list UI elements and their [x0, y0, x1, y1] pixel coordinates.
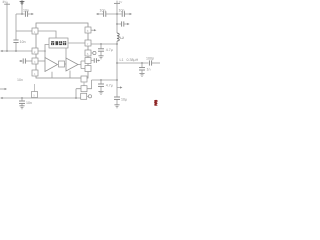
- pin box 5r (right): [85, 58, 91, 64]
- ground rail y98: [1, 97, 81, 99]
- arrow (y14 net right end): [130, 13, 132, 15]
- junction (7,51): [6, 50, 8, 52]
- svg-text:0.38μH: 0.38μH: [127, 58, 139, 62]
- wire B2 left to ground rail: [76, 89, 81, 98]
- stub wire y89 (left edge): [0, 88, 5, 90]
- junction (117,80): [116, 79, 118, 81]
- series capacitor C9 (x150): [149, 60, 151, 65]
- junction (16,51): [15, 50, 17, 52]
- wire y14 decoupling net: [97, 13, 103, 15]
- svg-text:10n: 10n: [23, 9, 29, 13]
- svg-text:3V: 3V: [2, 0, 7, 4]
- pin box 8 (right top): [85, 27, 91, 33]
- junction (22,14): [21, 13, 23, 15]
- capacitor C (series, x25-27): [25, 11, 27, 17]
- wire pin1 to block top: [38, 31, 56, 38]
- ground (C8): [98, 56, 103, 59]
- svg-text:10n: 10n: [26, 101, 32, 105]
- junction (22,98): [21, 97, 23, 99]
- red watermark logo: [154, 100, 158, 106]
- terminal circle (pin 6): [93, 51, 96, 54]
- output line y63: [117, 62, 148, 64]
- svg-text:10n: 10n: [100, 9, 106, 13]
- supply rail x117: [116, 3, 118, 33]
- wire block to pin 7: [68, 42, 85, 44]
- svg-text:3V: 3V: [119, 0, 123, 4]
- pin box B2: [81, 86, 87, 92]
- ground (C12): [114, 105, 119, 108]
- stub arrow (pin 8): [91, 29, 94, 31]
- terminal circle (B3): [88, 95, 91, 98]
- pin box 5 (left bottom): [34, 84, 36, 92]
- wire A2 bottom down: [69, 71, 71, 78]
- pin box 4r (right): [85, 66, 91, 72]
- wire bus y51: [1, 50, 32, 52]
- junction (117,44): [116, 43, 118, 45]
- arrow (y14 net left end): [96, 13, 98, 15]
- wire B2 right up: [87, 80, 92, 89]
- pin box 2 (left): [32, 48, 38, 54]
- capacitor C11 4.7u: [100, 80, 102, 84]
- junction (45,51): [44, 50, 46, 52]
- wire from V1 down to bus: [6, 4, 8, 51]
- arrow (y51 left end): [0, 50, 2, 52]
- svg-text:4.7μ: 4.7μ: [106, 84, 113, 88]
- ground (x22): [19, 106, 24, 109]
- capacitor C3 (series y61): [23, 58, 25, 63]
- capacitor C7: [122, 21, 124, 26]
- link B1-B2: [83, 82, 85, 86]
- svg-text:10n: 10n: [119, 9, 125, 13]
- junction (117,24): [116, 23, 118, 25]
- wire x16 vertical: [15, 14, 17, 40]
- ground (C11): [98, 91, 103, 94]
- wire pin2 to amp A1: [38, 51, 45, 58]
- svg-text:10μ: 10μ: [121, 98, 127, 102]
- svg-text:4.7μ: 4.7μ: [106, 48, 113, 52]
- capacitor C12 (rail bottom): [114, 97, 120, 99]
- inductor L2 (on rail): [117, 33, 119, 41]
- pin box 6 (right): [85, 50, 91, 56]
- wire Z1 to A2: [65, 63, 67, 65]
- wire A1 bottom down: [51, 72, 53, 78]
- wire pin3 to amp A1: [38, 60, 45, 62]
- svg-text:100p: 100p: [146, 57, 154, 61]
- junction (101,80): [100, 79, 102, 81]
- junction (142,63): [141, 62, 143, 64]
- ground (C10): [139, 73, 144, 76]
- arrow stub (rail y87.5): [117, 87, 120, 89]
- arrow terminal (y14 right end): [31, 13, 33, 15]
- capacitor C8 4.7u: [100, 44, 102, 48]
- arrow (y61 left end): [19, 60, 21, 62]
- capacitor C5: [104, 11, 106, 17]
- junction (117,14): [116, 13, 118, 15]
- svg-text:L1: L1: [120, 58, 124, 62]
- wire y44 net (pin7 to rail): [91, 43, 117, 45]
- label 振荡电路: [51, 41, 66, 45]
- wire y31 to pin 1: [16, 30, 32, 32]
- pin box 3 (left): [32, 58, 38, 64]
- wire block left to A1 input: [45, 45, 49, 52]
- power flag V2 (top right rail): [114, 0, 122, 4]
- svg-text:L2: L2: [120, 36, 124, 40]
- wire y24 branch: [117, 23, 121, 25]
- arrow (y24 end): [127, 23, 129, 25]
- antenna E1 (top x22): [20, 0, 25, 5]
- capacitor C10 1n (shunt x142): [141, 63, 143, 67]
- wire y61 input: [20, 60, 22, 62]
- capacitor C4 (x22 below rail): [21, 98, 23, 101]
- pin box 7 (right): [85, 40, 91, 46]
- svg-text:10n: 10n: [17, 78, 23, 82]
- wire block bottom to A2: [65, 48, 67, 58]
- power flag V1 (top-left): [2, 0, 10, 4]
- arrow (rail left end): [0, 97, 2, 99]
- pin box B3: [81, 93, 87, 99]
- capacitor C6: [122, 11, 124, 17]
- svg-text:1n: 1n: [147, 68, 151, 72]
- wire y80 net: [92, 79, 118, 81]
- junction (101,44): [100, 43, 102, 45]
- pin box B1 (bottom edge): [81, 76, 87, 82]
- filter block Z1: [59, 61, 65, 67]
- wire antenna down to y14 node: [21, 5, 23, 14]
- inner block (oscillator): [49, 38, 68, 48]
- pin box 4 (left): [32, 70, 38, 76]
- wire y14 left net: [16, 13, 25, 15]
- svg-text:10n: 10n: [20, 40, 26, 44]
- junction (76,98): [75, 97, 77, 99]
- pin box 1 (left): [32, 28, 38, 34]
- capacitor C2 (x16 shunt): [13, 40, 18, 43]
- module U1 outline: [36, 23, 88, 78]
- op-amp A2: [66, 58, 78, 71]
- stub with capacitor (pin 5r): [91, 60, 94, 62]
- wire A2 output: [78, 61, 85, 69]
- junction (117,63): [116, 62, 118, 64]
- op-amp A1: [45, 58, 58, 72]
